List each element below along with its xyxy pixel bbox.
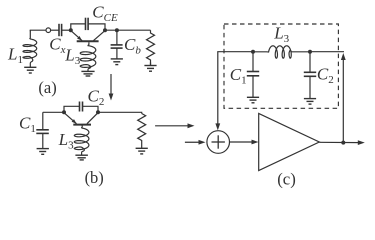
capacitor Cb plates: [111, 45, 123, 48]
svg-text:L3: L3: [64, 45, 80, 67]
svg-text:C1: C1: [230, 65, 247, 87]
svg-text:L3: L3: [273, 23, 289, 45]
ground under C1 of (c): [247, 97, 259, 103]
open terminal circle: [46, 28, 51, 33]
svg-text:(b): (b): [85, 168, 104, 187]
wire node D to resistor of (b): [98, 112, 142, 113]
adder plus sign: [212, 135, 225, 148]
node C dot: [62, 110, 66, 114]
ground under L1: [24, 67, 36, 73]
ground under resistor R2: [136, 148, 148, 154]
svg-text:(c): (c): [277, 170, 296, 189]
transistor Q1 base bar: [77, 40, 99, 42]
capacitor Cb lead: [116, 30, 118, 45]
transistor Q2 collector: [87, 113, 98, 124]
svg-text:Cx: Cx: [49, 35, 65, 57]
wire node B to Cb junction and resistor: [105, 29, 151, 31]
output arrow head: [358, 140, 365, 145]
inductor L3 of (c) horizontal: [253, 46, 310, 58]
capacitor C1 of (c) plates: [247, 72, 259, 76]
capacitor Cb bottom lead: [116, 48, 118, 59]
inductor L3 of (b): [74, 125, 89, 155]
annotation arrow down: [109, 74, 114, 101]
wire L1 to input terminal: [30, 30, 46, 31]
ground under L3 of (a): [81, 71, 94, 76]
transistor Q2 base bar: [73, 124, 91, 126]
feedback wire left: box to adder with arrow: [215, 52, 253, 131]
svg-text:(a): (a): [38, 78, 56, 97]
op-amp U1 triangle: [259, 114, 320, 171]
wire node A up to CCE: [71, 24, 86, 30]
ground under L3 of (b): [75, 155, 88, 160]
capacitor C2 of (c) top lead: [309, 52, 311, 73]
wire C2 to node D: [83, 106, 99, 112]
feedback wire right: C2 node to up arrow junction: [310, 51, 344, 53]
wire terminal to Cx: [51, 29, 59, 31]
node dot C1 of (c): [251, 50, 255, 54]
svg-text:L1: L1: [7, 45, 23, 67]
inductor L3 of (a): [80, 42, 96, 71]
feedback wire right vertical with up arrow: [341, 53, 346, 143]
capacitor C1 of (c) top lead: [252, 52, 254, 72]
resistor R2 of (b): [138, 114, 146, 149]
ground under C1 of (b): [37, 149, 49, 155]
svg-text:L3: L3: [58, 130, 74, 152]
svg-text:C1: C1: [19, 114, 36, 136]
node A dot: [69, 28, 73, 32]
inductor L1: [23, 30, 37, 67]
input arrow into adder: [185, 140, 206, 145]
node dot C2 of (c): [308, 50, 312, 54]
ground under C2 of (c): [304, 99, 316, 105]
capacitor Cx: [59, 24, 62, 36]
node D dot: [96, 110, 100, 114]
wire Cx to node A: [62, 29, 71, 31]
svg-text:Cb: Cb: [124, 35, 141, 57]
capacitor C2 of (b) plates: [80, 102, 83, 112]
junction dot at Cb: [115, 28, 119, 32]
capacitor C1 of (b) bottom lead: [42, 133, 44, 148]
capacitor CCE: [86, 18, 89, 30]
capacitor C2 of (c) bottom lead: [309, 76, 311, 98]
wire C1 to node C: [43, 111, 64, 113]
transistor Q1 collector: [94, 31, 106, 41]
capacitor C2 of (c) plates: [304, 72, 316, 76]
capacitor C1 of (c) bottom lead: [252, 76, 254, 97]
adder circle: [207, 131, 230, 154]
wire CCE to node B: [88, 24, 105, 30]
long implication arrow: [155, 123, 194, 128]
svg-text:CCE: CCE: [92, 2, 118, 24]
output node dot: [341, 141, 345, 145]
output wire: [319, 141, 361, 143]
arrow adder to amplifier: [230, 140, 259, 145]
capacitor C1 of (b) plates: [36, 130, 49, 134]
wire node C up to C2: [64, 106, 80, 112]
node B dot: [103, 28, 107, 32]
transistor Q1 emitter with arrow: [71, 31, 82, 41]
ground under Cb: [111, 59, 123, 65]
dashed feedback box: [224, 24, 338, 108]
transistor Q2 emitter with arrow: [64, 113, 77, 124]
capacitor C1 of (b) top lead: [42, 112, 44, 130]
svg-text:C2: C2: [317, 65, 334, 87]
svg-text:C2: C2: [88, 87, 105, 109]
ground under resistor R1: [144, 63, 156, 72]
resistor R1 of (a): [147, 30, 155, 62]
